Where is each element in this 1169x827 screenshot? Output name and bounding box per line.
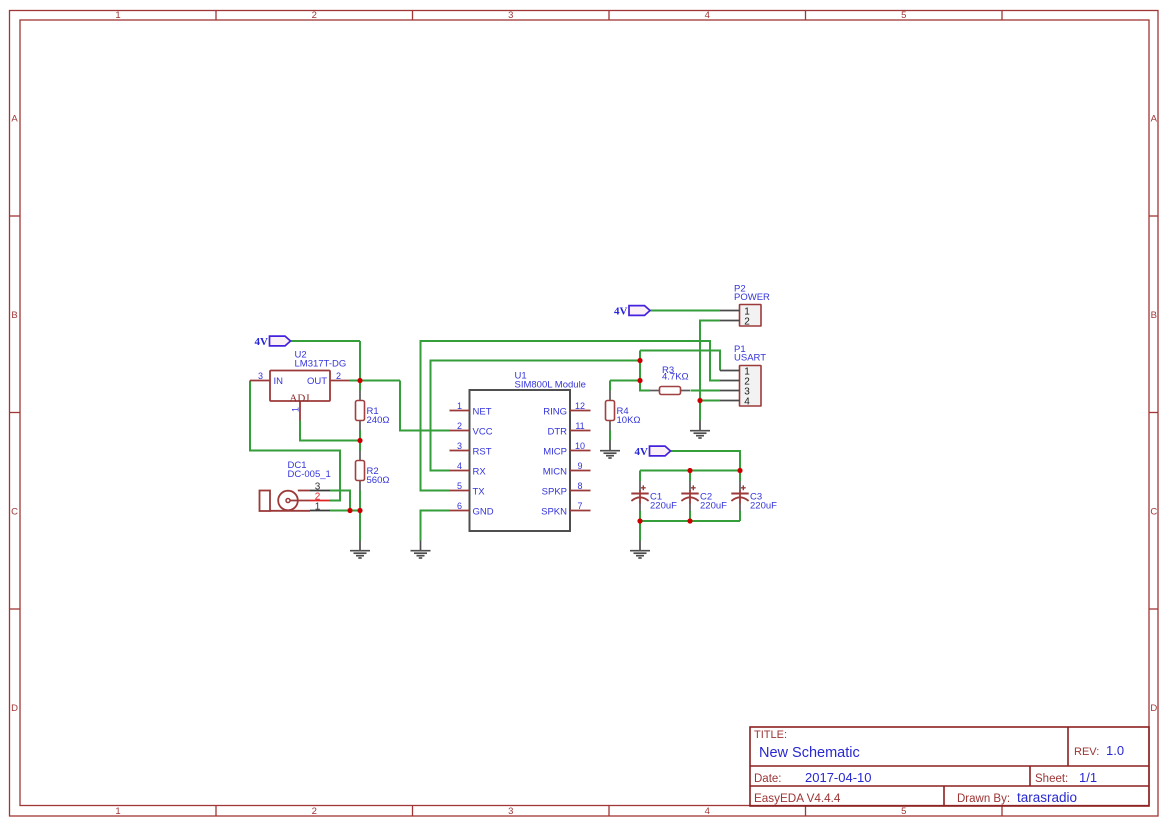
svg-text:2: 2	[312, 10, 317, 21]
ground under R2	[350, 541, 370, 559]
svg-text:New Schematic: New Schematic	[759, 745, 860, 761]
junction C3 on top rail	[737, 468, 742, 473]
svg-text:4: 4	[457, 461, 462, 471]
svg-text:4.7KΩ: 4.7KΩ	[662, 372, 689, 383]
wire capacitor top rail	[640, 470, 740, 472]
junction DC1 ground net on R2 rail	[357, 508, 362, 513]
wire DC1 pin 1 to ground net	[330, 510, 360, 512]
IC U1 SIM800L Module	[470, 390, 571, 531]
wire node A down to U2 OUT junction	[359, 341, 361, 381]
title block	[750, 727, 1149, 806]
svg-text:220uF: 220uF	[700, 501, 727, 512]
wire U2 IN to DC1 pin 2	[250, 381, 340, 501]
U1 pin 5 TX	[450, 481, 486, 497]
U1 pin 12 RING	[543, 401, 590, 417]
svg-text:4V: 4V	[614, 306, 628, 318]
junction C2 on bottom rail	[687, 518, 692, 523]
wire branch to P1 pin 4	[700, 400, 720, 402]
DC power jack DC1 DC-005_1	[260, 491, 298, 512]
svg-text:11: 11	[575, 421, 584, 431]
wire U1 TX to P1 pin 2	[421, 341, 721, 491]
svg-text:1/1: 1/1	[1079, 770, 1097, 785]
svg-text:ADJ: ADJ	[289, 392, 310, 404]
svg-text:C: C	[1150, 506, 1157, 517]
svg-text:3: 3	[457, 441, 462, 451]
svg-text:2: 2	[312, 806, 317, 817]
svg-text:GND: GND	[473, 506, 494, 517]
svg-text:5: 5	[901, 806, 906, 817]
wire node B to P1 pin 1	[640, 351, 720, 371]
P1 pin 1	[720, 366, 750, 377]
wire to U1 VCC pin 2	[400, 381, 450, 431]
wire bend down to R4	[609, 381, 611, 391]
svg-text:2: 2	[336, 371, 341, 381]
net flag 1 4V	[255, 336, 291, 348]
U1 pin 1 NET	[450, 401, 492, 417]
svg-text:D: D	[11, 703, 18, 714]
wire U2 ADJ to R1-R2 junction	[300, 421, 360, 441]
wire C3 bottom to rail	[739, 511, 741, 521]
ground under C1	[630, 541, 650, 559]
svg-text:1: 1	[290, 407, 300, 412]
ground under U1 GND	[411, 541, 431, 559]
wire U1 RX to node B	[431, 361, 641, 471]
svg-text:3: 3	[508, 10, 513, 21]
U1 pin 11 DTR	[547, 421, 590, 437]
svg-text:10: 10	[575, 441, 585, 451]
svg-text:3: 3	[258, 371, 263, 381]
svg-text:Date:: Date:	[754, 773, 782, 785]
svg-text:220uF: 220uF	[650, 501, 677, 512]
junction R1 / R2 / ADJ	[357, 438, 362, 443]
svg-text:USART: USART	[734, 353, 766, 364]
wire R1 bottom to junction	[359, 431, 361, 441]
svg-text:4V: 4V	[635, 446, 649, 458]
svg-text:12: 12	[575, 401, 585, 411]
wire R3 right to P1 pin 3	[691, 390, 721, 392]
P2 pin 2	[720, 316, 750, 327]
svg-text:4: 4	[705, 806, 710, 817]
ground under P2/P1	[690, 421, 710, 439]
U1 pin 8 SPKP	[542, 481, 591, 497]
wire C2 bottom to rail	[689, 511, 691, 521]
ground under R4	[600, 441, 620, 459]
svg-text:2: 2	[457, 421, 462, 431]
U1 pin 9 MICN	[543, 461, 591, 477]
wire R2 bottom to ground rail	[359, 491, 361, 541]
wire junction to R1 top	[359, 381, 361, 391]
svg-text:POWER: POWER	[734, 292, 770, 303]
DC1 pin 1	[270, 502, 330, 513]
svg-text:6: 6	[457, 501, 462, 511]
junction C1 on bottom rail	[637, 518, 642, 523]
svg-text:Drawn By:: Drawn By:	[957, 793, 1010, 805]
svg-text:TX: TX	[473, 486, 486, 497]
capacitor C3 220uF	[731, 481, 748, 511]
svg-text:220uF: 220uF	[750, 501, 777, 512]
capacitor C2 220uF	[681, 481, 698, 511]
svg-text:MICN: MICN	[543, 466, 567, 477]
svg-text:10KΩ: 10KΩ	[617, 415, 641, 426]
svg-text:C: C	[11, 506, 18, 517]
capacitor C1 220uF	[631, 481, 648, 511]
svg-text:8: 8	[577, 481, 582, 491]
svg-text:560Ω: 560Ω	[367, 475, 390, 486]
svg-text:IN: IN	[274, 376, 284, 387]
svg-text:NET: NET	[473, 406, 492, 417]
svg-text:A: A	[1151, 114, 1158, 125]
P1 pin 3	[720, 386, 750, 397]
U2 pin 3 IN	[250, 371, 283, 387]
wire junction to R2 top	[359, 441, 361, 451]
svg-text:1: 1	[115, 10, 120, 21]
wire capacitor bottom rail	[640, 520, 740, 522]
wire net 4V flag3 to capacitor rail	[670, 451, 740, 471]
svg-text:4: 4	[744, 396, 750, 407]
U2 pin 2 OUT	[307, 371, 350, 387]
junction U2 OUT / 4V / R1 / VCC	[357, 378, 362, 383]
svg-text:2017-04-10: 2017-04-10	[805, 770, 872, 785]
U1 pin 10 MICP	[543, 441, 590, 457]
resistor R2 560Ω	[356, 451, 365, 491]
wire R4 top link to node B	[610, 380, 640, 382]
svg-text:1: 1	[457, 401, 462, 411]
U1 pin 3 RST	[450, 441, 492, 457]
svg-text:A: A	[11, 114, 18, 125]
svg-text:OUT: OUT	[307, 376, 327, 387]
wire node B vertical to R3 left	[640, 351, 650, 391]
svg-text:TITLE:: TITLE:	[754, 729, 787, 741]
wire U2 OUT junction to bend	[350, 380, 400, 382]
junction P1 pin 4 on P2-ground wire	[697, 398, 702, 403]
svg-text:DTR: DTR	[547, 426, 567, 437]
svg-text:SIM800L Module: SIM800L Module	[515, 380, 586, 391]
svg-text:5: 5	[901, 10, 906, 21]
svg-text:MICP: MICP	[543, 446, 567, 457]
U1 pin 7 SPKN	[541, 501, 590, 517]
resistor R1 240Ω	[356, 391, 365, 431]
svg-text:3: 3	[508, 806, 513, 817]
svg-text:tarasradio: tarasradio	[1017, 790, 1077, 805]
junction RX node B	[637, 358, 642, 363]
U1 pin 6 GND	[450, 501, 494, 517]
svg-text:B: B	[11, 310, 17, 321]
U2 pin 1 ADJ	[289, 392, 310, 420]
svg-text:240Ω: 240Ω	[367, 415, 390, 426]
wire U1 GND to ground	[421, 511, 450, 541]
svg-text:4V: 4V	[255, 336, 269, 348]
svg-text:DC-005_1: DC-005_1	[288, 469, 331, 480]
svg-text:EasyEDA V4.4.4: EasyEDA V4.4.4	[754, 792, 841, 805]
connector P1 USART	[740, 366, 762, 407]
svg-text:9: 9	[577, 461, 582, 471]
svg-text:D: D	[1150, 703, 1157, 714]
svg-text:REV:: REV:	[1074, 746, 1099, 758]
svg-text:B: B	[1151, 310, 1157, 321]
P1 pin 2	[720, 376, 750, 387]
svg-text:VCC: VCC	[473, 426, 493, 437]
P1 pin 4	[720, 396, 750, 407]
net flag 3 4V	[635, 446, 671, 458]
wire rail to C1 top	[639, 471, 641, 482]
junction DC1 pin3 drop on ground net	[347, 508, 352, 513]
svg-text:SPKP: SPKP	[542, 486, 567, 497]
svg-text:LM317T-DG: LM317T-DG	[295, 359, 347, 370]
connector P2 POWER	[740, 305, 762, 327]
wire rail to C3 top	[739, 471, 741, 482]
DC1 pin 3	[298, 481, 330, 492]
wire rail to C2 top	[689, 471, 691, 482]
wire C1 bottom to rail	[639, 511, 641, 521]
wire net 4V flag2 to P2 pin 1	[650, 310, 720, 312]
svg-text:4: 4	[705, 10, 710, 21]
wire R4 bottom to ground	[609, 431, 611, 441]
wire P2 pin 2 down to ground	[700, 321, 720, 421]
U1 pin 2 VCC	[450, 421, 493, 437]
resistor R4 10KΩ	[606, 391, 615, 431]
svg-text:Sheet:: Sheet:	[1035, 773, 1068, 785]
svg-text:RST: RST	[473, 446, 492, 457]
wire net 4V flag1 to node A	[290, 340, 360, 342]
U1 pin 4 RX	[450, 461, 487, 477]
net flag 2 4V	[614, 306, 650, 318]
svg-text:SPKN: SPKN	[541, 506, 567, 517]
svg-text:7: 7	[577, 501, 582, 511]
svg-text:RX: RX	[473, 466, 487, 477]
svg-text:1: 1	[115, 806, 120, 817]
DC1 pin 2	[290, 492, 330, 503]
P2 pin 1	[720, 306, 750, 317]
svg-text:1.0: 1.0	[1106, 743, 1124, 758]
svg-text:1: 1	[315, 502, 321, 513]
resistor R3 4.7K	[650, 387, 690, 395]
junction R4 on node B	[637, 378, 642, 383]
wire DC1 pin 3 to ground net	[330, 491, 350, 511]
voltage regulator U2 LM317T-DG	[270, 371, 330, 402]
svg-text:5: 5	[457, 481, 462, 491]
svg-text:2: 2	[744, 316, 750, 327]
svg-text:RING: RING	[543, 406, 567, 417]
wire bottom rail to ground	[639, 521, 641, 541]
junction C2 on top rail	[687, 468, 692, 473]
